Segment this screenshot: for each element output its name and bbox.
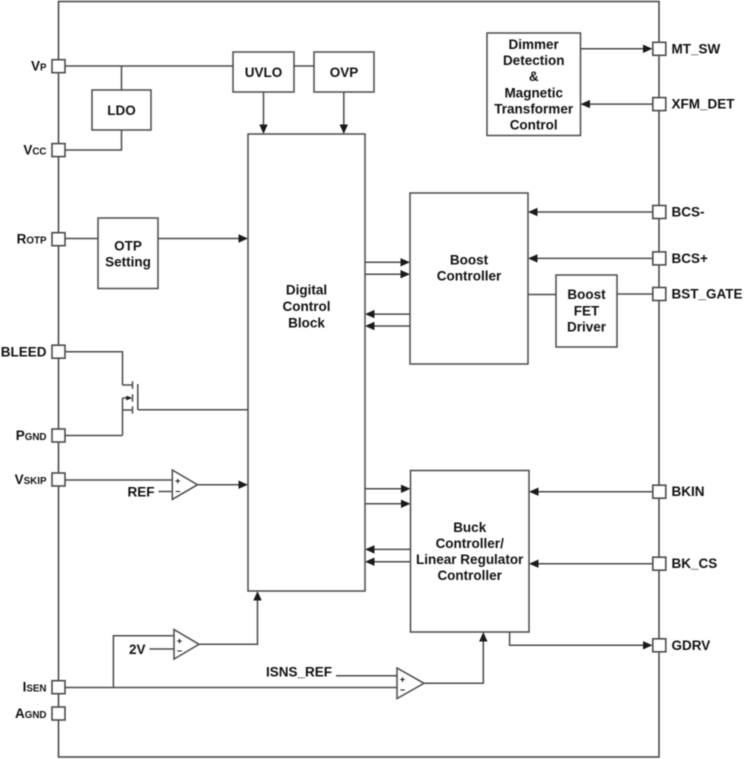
svg-text:OVP: OVP [330,65,359,80]
svg-text:Block: Block [288,316,325,331]
svg-text:−: − [175,487,180,497]
svg-text:UVLO: UVLO [245,65,283,80]
svg-text:Controller: Controller [437,568,502,583]
svg-text:Boost: Boost [567,287,606,302]
svg-text:BCS+: BCS+ [672,251,709,266]
svg-text:FET: FET [574,303,600,318]
svg-text:Boost: Boost [450,253,489,268]
svg-text:Linear Regulator: Linear Regulator [416,552,524,567]
svg-text:Controller/: Controller/ [436,536,505,551]
svg-text:Dimmer: Dimmer [509,37,560,52]
svg-text:Detection: Detection [503,53,565,68]
svg-text:Digital: Digital [286,283,327,298]
svg-text:+: + [177,636,182,646]
svg-text:BK_CS: BK_CS [672,556,718,571]
svg-text:BCS-: BCS- [672,205,705,220]
svg-text:REF: REF [128,484,155,499]
svg-text:Driver: Driver [567,320,607,335]
svg-text:BST_GATE: BST_GATE [672,287,743,302]
svg-text:LDO: LDO [107,103,136,118]
svg-text:Control: Control [510,117,558,132]
svg-text:Setting: Setting [105,254,151,269]
svg-text:GDRV: GDRV [672,638,711,653]
svg-text:−: − [400,685,405,695]
svg-text:BLEED: BLEED [1,344,47,359]
svg-text:+: + [400,674,405,684]
svg-text:−: − [177,646,182,656]
svg-text:2V: 2V [129,642,146,657]
svg-text:&: & [529,69,539,84]
svg-text:ISNS_REF: ISNS_REF [266,665,332,680]
svg-text:+: + [175,476,180,486]
svg-text:MT_SW: MT_SW [672,41,721,56]
svg-text:Magnetic: Magnetic [504,85,563,100]
svg-text:Transformer: Transformer [494,101,574,116]
svg-text:Buck: Buck [453,520,487,535]
svg-text:XFM_DET: XFM_DET [672,97,736,112]
svg-text:OTP: OTP [114,238,142,253]
svg-text:BKIN: BKIN [672,484,705,499]
svg-text:Control: Control [283,299,331,314]
svg-text:Controller: Controller [437,269,502,284]
